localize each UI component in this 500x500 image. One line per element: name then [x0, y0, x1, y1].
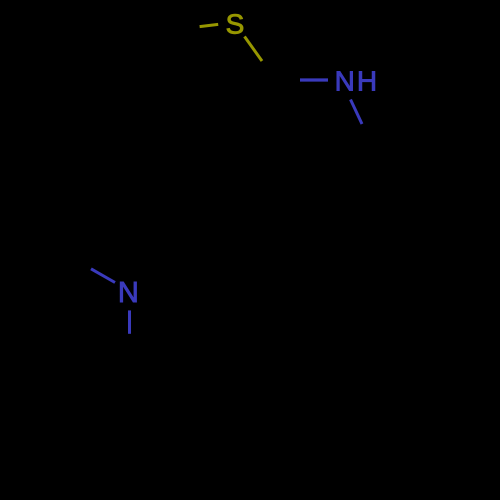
bond C2-NH (blue half-bond, horizontal into NH) [300, 78, 328, 81]
bond S-CH3 (yellow half-bond, upper left) [200, 24, 219, 26]
bond NH-CH3 (blue half-bond, down-right from NH) [351, 100, 363, 125]
bond N-C (blue half-bond, vertical below N) [128, 310, 131, 333]
bond S-C2 (yellow half-bond, down-right from S) [245, 37, 263, 62]
svg-text:NH: NH [335, 66, 379, 97]
svg-text:N: N [118, 277, 139, 309]
bond N-CH3 (blue half-bond, up-left from N) [91, 269, 115, 283]
svg-text:S: S [226, 9, 245, 40]
